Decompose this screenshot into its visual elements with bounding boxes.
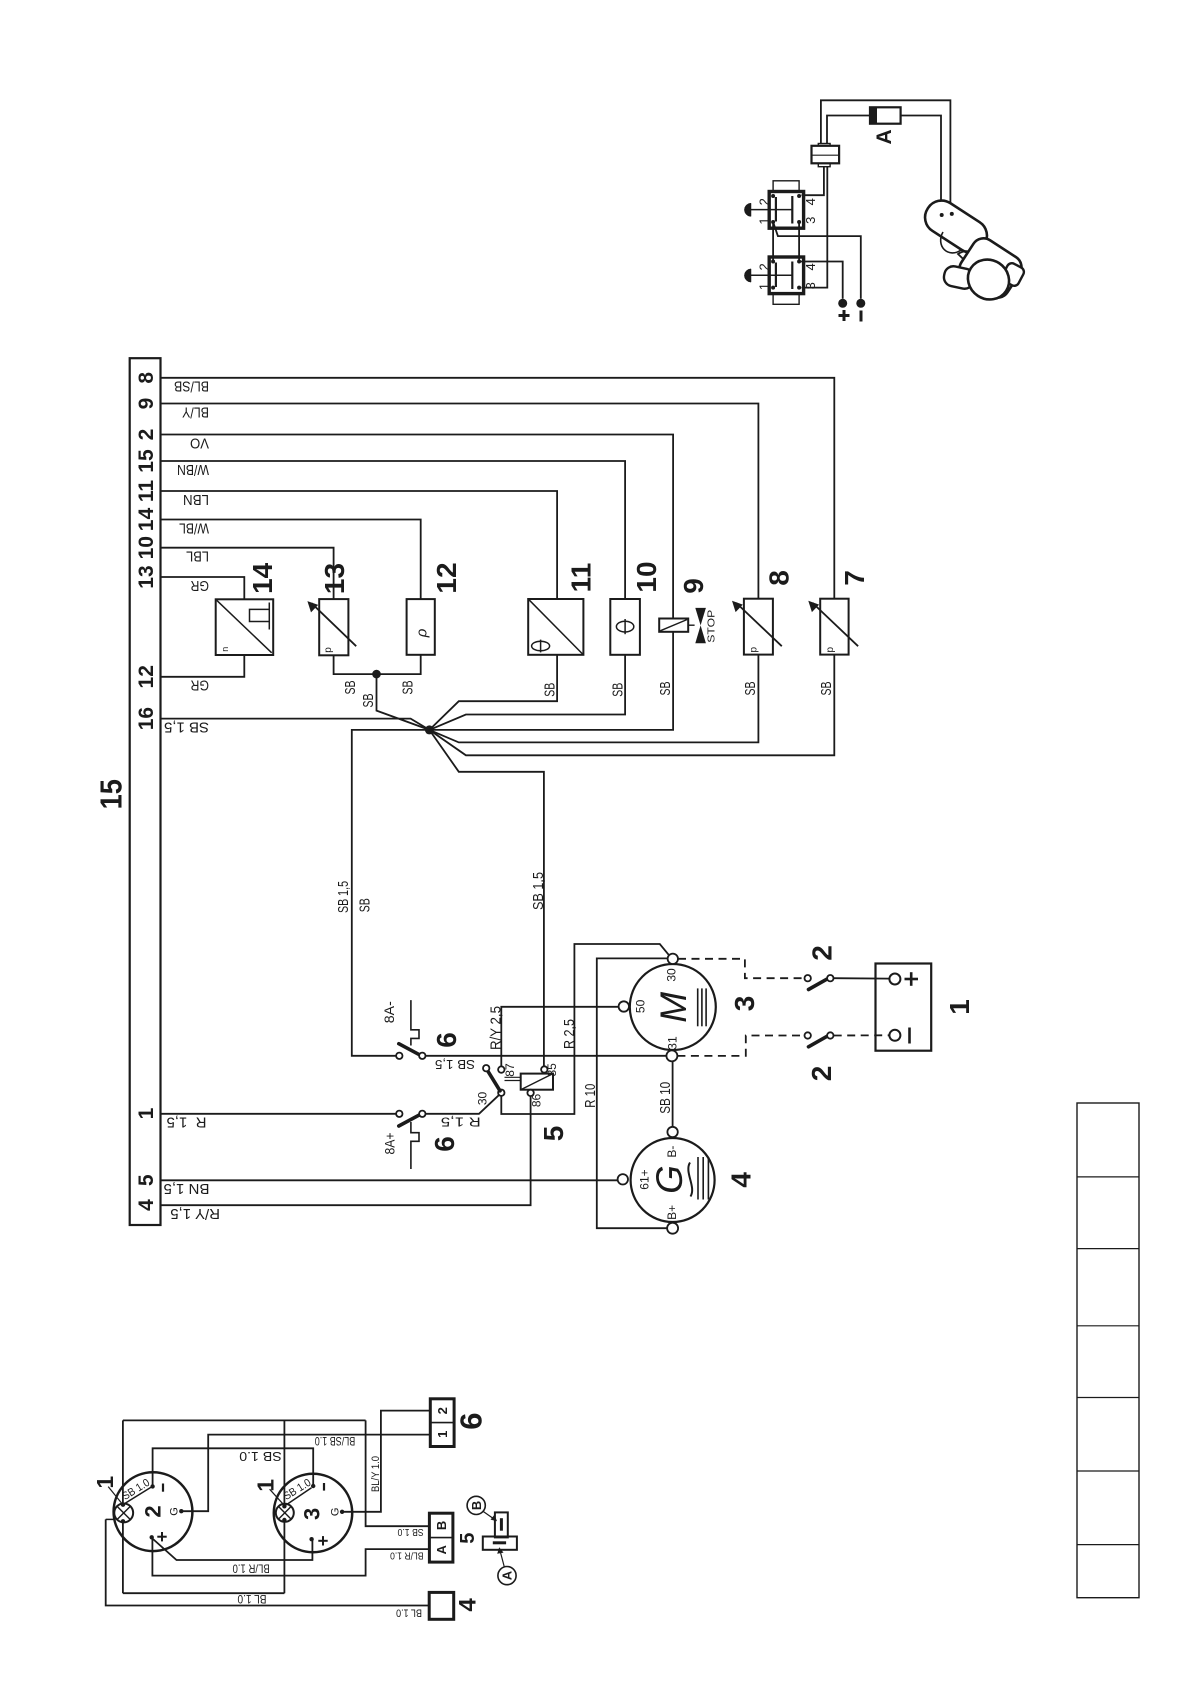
svg-text:12: 12 — [431, 562, 462, 593]
wire BL/Y pin9 to sensor 8 — [161, 404, 759, 599]
svg-text:p: p — [749, 646, 760, 652]
battery switch 2 (positive) — [678, 959, 804, 978]
wire W/BL pin14 to sensor 12 — [161, 520, 421, 600]
svg-text:10: 10 — [135, 536, 158, 559]
svg-text:11: 11 — [135, 480, 158, 503]
main ground junction — [425, 725, 434, 734]
svg-text:3: 3 — [299, 1508, 324, 1520]
svg-text:BL/Y 1.0: BL/Y 1.0 — [370, 1456, 382, 1492]
plus terminal gauge 2 — [150, 1535, 154, 1539]
wire SB 1,5 breaker to starter 31 — [426, 1055, 667, 1057]
wire BL/SB 1.0 connector 6 pin1 to gauge 2 G — [181, 1435, 430, 1512]
wire BL/R 1.0 gauge 2 plus to gauge 3 plus — [152, 1539, 312, 1561]
svg-text:2: 2 — [756, 263, 771, 270]
svg-text:LBL: LBL — [186, 548, 209, 565]
battery positive terminal — [889, 974, 900, 985]
fuse A — [870, 107, 901, 123]
svg-text:8A+: 8A+ — [382, 1133, 398, 1155]
svg-text:SB 10: SB 10 — [657, 1082, 674, 1114]
callout A — [498, 1567, 516, 1585]
svg-text:A: A — [500, 1570, 515, 1580]
svg-text:R 2,5: R 2,5 — [561, 1019, 578, 1049]
svg-text:7: 7 — [839, 570, 870, 586]
sensor 11 (temperature sender) — [528, 599, 583, 655]
wire LBL pin10 to sensor 13 — [161, 548, 334, 599]
junction dot SB bus — [372, 670, 381, 679]
gauge 2 (instrument) — [114, 1472, 193, 1551]
svg-text:1: 1 — [944, 999, 975, 1015]
relay 5 pin 85 — [541, 1066, 547, 1072]
sensor 14 (pulse sender) — [216, 599, 274, 655]
G terminal gauge 3 — [340, 1510, 344, 1514]
svg-text:R/Y 2,5: R/Y 2,5 — [487, 1006, 504, 1050]
starter terminal 31 — [666, 1050, 677, 1061]
wire BL/Y 1.0 gauge 3 G to connector 6 pin 2 — [342, 1411, 430, 1512]
wire BL/SB pin8 to sensor 7 — [161, 378, 835, 599]
svg-text:BL/R 1.0: BL/R 1.0 — [232, 1561, 269, 1575]
svg-text:87: 87 — [503, 1063, 517, 1077]
wire R/Y 2,5 relay 87 to starter 50 — [501, 1007, 618, 1067]
svg-text:B+: B+ — [665, 1205, 679, 1220]
wire upper glow pin1 to minus — [773, 222, 861, 299]
svg-text:3: 3 — [803, 282, 818, 289]
svg-text:1: 1 — [92, 1476, 118, 1489]
relay 5 linkage — [505, 1076, 521, 1078]
svg-text:SB 1,5: SB 1,5 — [530, 872, 547, 910]
wire R 1,5 breaker to relay 30 — [426, 1095, 500, 1114]
svg-text:BL/SB: BL/SB — [174, 378, 209, 395]
starter motor illustration — [919, 194, 1026, 307]
svg-text:ρ: ρ — [413, 628, 430, 638]
svg-text:SB: SB — [818, 682, 835, 696]
wire lower glow pin4 to plus — [799, 262, 843, 299]
connector 6 (bottom) — [430, 1399, 454, 1447]
legend table — [1077, 1103, 1139, 1598]
svg-text:50: 50 — [633, 999, 647, 1013]
connector 5 (bottom) — [429, 1513, 453, 1562]
sensor 7 (variable pressure sender) — [820, 599, 848, 655]
svg-text:SB: SB — [609, 683, 626, 697]
svg-text:SB: SB — [360, 694, 377, 708]
svg-text:8: 8 — [135, 372, 158, 384]
battery switch 2 (negative) — [677, 1036, 803, 1056]
svg-text:14: 14 — [135, 508, 158, 532]
connector strip 15 — [130, 358, 161, 1225]
svg-text:3: 3 — [803, 217, 818, 224]
svg-text:4: 4 — [803, 198, 818, 205]
wire bulb feed gauge 3 — [283, 1420, 285, 1593]
svg-text:6: 6 — [453, 1412, 488, 1429]
minus terminal gauge 3 — [311, 1484, 315, 1488]
svg-text:2: 2 — [806, 1066, 837, 1082]
svg-text:3: 3 — [729, 996, 760, 1012]
svg-text:SB: SB — [742, 682, 759, 696]
accessory connector box — [812, 146, 840, 164]
svg-text:4: 4 — [726, 1172, 757, 1188]
svg-text:M: M — [653, 992, 694, 1023]
svg-text:SB: SB — [657, 682, 674, 696]
generator terminal B+ — [667, 1223, 678, 1234]
wire SB bus to connector 5 pin B — [366, 1420, 430, 1526]
wire accessory top link — [821, 100, 951, 212]
svg-text:14: 14 — [247, 562, 278, 594]
svg-text:W/BN: W/BN — [177, 461, 209, 478]
svg-text:SB: SB — [541, 683, 558, 697]
wire SB junction to breaker 6 (8A-) — [352, 730, 430, 1056]
svg-text:1: 1 — [756, 283, 771, 290]
svg-text:SB 1,5: SB 1,5 — [435, 1057, 475, 1072]
svg-text:12: 12 — [135, 665, 158, 688]
svg-text:1: 1 — [135, 1107, 158, 1119]
svg-text:2: 2 — [135, 429, 158, 441]
relay 5 pin 86 — [527, 1090, 533, 1096]
svg-text:BL 1.0: BL 1.0 — [396, 1607, 422, 1619]
wire bulb feed gauge 2 — [122, 1420, 124, 1593]
svg-text:GR: GR — [190, 577, 209, 594]
sensor 8 (variable pressure sender) — [744, 599, 773, 655]
svg-text:11: 11 — [566, 563, 597, 593]
wire SB bus to main junction — [377, 674, 430, 730]
svg-text:BL/SB 1.0: BL/SB 1.0 — [314, 1434, 355, 1448]
svg-text:6: 6 — [429, 1136, 460, 1152]
gauge 3 (instrument) — [274, 1474, 352, 1552]
glow plug connector lower — [769, 257, 803, 294]
svg-text:5: 5 — [457, 1533, 479, 1544]
wire SB 1,5 junction to relay 85 — [429, 730, 544, 1066]
wire connector box to glow connector pin 4 — [802, 167, 824, 196]
svg-text:SB 1.0: SB 1.0 — [397, 1526, 423, 1537]
wire SB sensor 13 return — [334, 655, 421, 674]
sender symbol B (oil pressure) — [495, 1512, 508, 1537]
wire R 10 starter 30 to generator B+ — [597, 958, 668, 1228]
svg-text:30: 30 — [665, 968, 679, 982]
svg-text:VO: VO — [190, 434, 209, 451]
svg-text:A: A — [434, 1544, 449, 1554]
wire SB 1.0 gauge 2 minus to gauge 3 minus — [153, 1448, 314, 1486]
svg-text:SB: SB — [357, 898, 374, 912]
svg-text:4: 4 — [455, 1598, 482, 1612]
wire R 2,5 relay 30 to starter 30 — [501, 944, 669, 1114]
svg-text:13: 13 — [135, 565, 158, 588]
wire VO pin2 to stop solenoid 9 — [161, 435, 674, 619]
svg-text:85: 85 — [545, 1063, 559, 1077]
lamp 1 in gauge 2 — [114, 1503, 133, 1522]
generator terminal B- — [667, 1127, 677, 1137]
svg-text:BL/R 1.0: BL/R 1.0 — [390, 1549, 424, 1560]
svg-text:G: G — [649, 1165, 690, 1194]
sensor 10 (temperature switch) — [610, 599, 640, 655]
relay 5 pin 87 — [498, 1066, 504, 1072]
svg-text:p: p — [825, 646, 836, 652]
svg-text:p: p — [323, 647, 334, 653]
wire BL 1.0 to connector 4 — [106, 1519, 430, 1605]
wire SB 10 starter 31 to generator B- — [672, 1061, 674, 1126]
wire SB 1.0 lamp to minus gauge 3 — [286, 1488, 311, 1505]
svg-text:8A-: 8A- — [381, 1001, 397, 1023]
svg-text:6: 6 — [431, 1032, 462, 1048]
wire SB bus instrument lighting — [123, 1419, 366, 1421]
starter terminal 30 — [668, 954, 678, 964]
sender symbol A — [483, 1537, 517, 1550]
stop solenoid 9 — [659, 619, 688, 632]
svg-text:1: 1 — [253, 1479, 279, 1492]
svg-text:R 1,5: R 1,5 — [166, 1114, 206, 1131]
wire R 1,5 pin1 to breaker 6 (8A+) — [161, 1113, 397, 1115]
wire R/Y 1,5 pin4 to relay 86 — [161, 1096, 531, 1205]
svg-text:LBN: LBN — [183, 491, 209, 508]
svg-text:30: 30 — [476, 1092, 490, 1106]
svg-text:G: G — [329, 1508, 341, 1517]
svg-text:STOP: STOP — [706, 610, 718, 643]
wire SB 1,5 pin16 to ground junction — [161, 719, 430, 730]
svg-text:4: 4 — [803, 263, 818, 270]
wire GR pin13 to sensor 14 — [161, 577, 245, 599]
svg-text:n: n — [220, 647, 230, 652]
svg-text:GR: GR — [190, 677, 209, 694]
svg-text:5: 5 — [538, 1126, 569, 1142]
wire connector box to lower glow connector pin 3 — [802, 167, 828, 288]
svg-text:SB 1,5: SB 1,5 — [335, 881, 352, 913]
svg-text:15: 15 — [135, 449, 158, 473]
plus terminal gauge 3 — [309, 1537, 313, 1541]
wire SB sensor 7 return — [429, 655, 834, 756]
wire LBN pin11 to sensor 11 — [161, 491, 558, 599]
sensor 12 (pressure switch) — [407, 599, 435, 655]
svg-text:BL 1.0: BL 1.0 — [237, 1592, 266, 1606]
wire fuse to motor — [901, 116, 941, 213]
svg-text:B-: B- — [665, 1146, 679, 1158]
battery negative terminal — [889, 1030, 900, 1041]
svg-text:16: 16 — [135, 707, 158, 730]
svg-text:G: G — [168, 1507, 180, 1516]
accessory minus terminal — [856, 299, 865, 308]
svg-text:SB: SB — [342, 681, 359, 695]
G terminal gauge 2 — [179, 1509, 183, 1513]
svg-text:61+: 61+ — [637, 1169, 651, 1189]
svg-text:W/BL: W/BL — [179, 519, 209, 536]
wire fuse to connector box — [827, 116, 870, 144]
svg-text:13: 13 — [319, 563, 350, 594]
svg-text:SB 1.0: SB 1.0 — [239, 1449, 282, 1464]
generator terminal 61+ — [618, 1174, 628, 1184]
sensor 13 (variable resistance sender) — [319, 599, 348, 655]
svg-text:86: 86 — [530, 1094, 544, 1108]
svg-text:8: 8 — [764, 570, 795, 586]
callout B — [467, 1496, 485, 1514]
svg-text:2: 2 — [807, 945, 838, 961]
svg-text:1: 1 — [435, 1431, 450, 1438]
minus terminal gauge 2 — [150, 1484, 154, 1488]
wire SB 1.0 lamp to minus gauge 2 — [125, 1487, 151, 1503]
wire SB stop solenoid return — [429, 632, 673, 730]
svg-text:SB: SB — [399, 681, 416, 695]
connector 4 (bottom) — [429, 1592, 454, 1619]
svg-text:2: 2 — [756, 198, 771, 205]
svg-text:SB 1,5: SB 1,5 — [164, 718, 209, 735]
relay 5 coil — [521, 1074, 553, 1090]
svg-text:15: 15 — [94, 779, 129, 809]
battery 1 — [876, 964, 932, 1051]
svg-text:BL/Y: BL/Y — [182, 403, 209, 420]
wire SB sensor 10 return — [429, 655, 625, 730]
svg-text:31: 31 — [666, 1036, 680, 1050]
svg-text:10: 10 — [631, 561, 662, 592]
lamp 1 in gauge 3 — [276, 1504, 294, 1522]
svg-text:4: 4 — [135, 1199, 158, 1211]
svg-text:9: 9 — [678, 578, 709, 594]
wire BL 1.0 lamp link — [123, 1592, 285, 1594]
wire BL/R 1.0 connector 5 pin A to gauge plus — [152, 1539, 429, 1576]
svg-text:5: 5 — [135, 1174, 158, 1186]
accessory plus terminal — [838, 299, 847, 308]
wire SB sensor 8 return — [429, 655, 758, 743]
wire SB sensor 11 return — [429, 655, 557, 730]
starter motor 3 — [630, 964, 716, 1050]
wire BN 1,5 pin5 to generator 61+ — [161, 1179, 618, 1181]
svg-text:2: 2 — [141, 1505, 166, 1517]
wire W/BN pin15 to sensor 10 — [161, 461, 626, 599]
relay 5 contact blade — [487, 1070, 500, 1091]
svg-text:B: B — [434, 1521, 449, 1530]
svg-text:R/Y 1,5: R/Y 1,5 — [170, 1205, 220, 1222]
svg-text:2: 2 — [435, 1407, 450, 1414]
wire GR pin12 to sensor 14 — [161, 655, 245, 677]
svg-text:A: A — [873, 129, 896, 144]
svg-text:BN 1,5: BN 1,5 — [164, 1180, 210, 1197]
circuit breaker 6 (8A-) — [396, 1053, 402, 1059]
svg-text:R 1,5: R 1,5 — [441, 1115, 481, 1130]
starter terminal 50 — [619, 1001, 629, 1011]
glow plug connector upper — [773, 181, 799, 192]
generator 4 — [631, 1138, 715, 1222]
svg-text:1: 1 — [756, 217, 771, 224]
circuit breaker 6 (8A+) — [396, 1111, 402, 1117]
wire upper glow pin3 to lower glow pin2 area — [798, 222, 800, 262]
svg-text:9: 9 — [135, 398, 158, 410]
svg-text:R 10: R 10 — [582, 1084, 599, 1108]
relay 5 pin 30 — [498, 1090, 504, 1096]
svg-text:B: B — [469, 1501, 484, 1510]
